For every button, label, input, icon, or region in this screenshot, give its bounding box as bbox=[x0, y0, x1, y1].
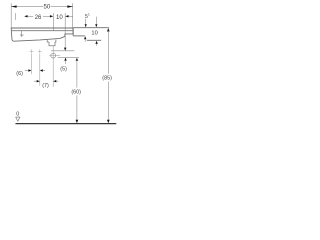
waste connection circle bbox=[51, 53, 56, 58]
svg-text:26: 26 bbox=[35, 14, 42, 21]
svg-text:(85): (85) bbox=[102, 76, 112, 82]
fixing line 1 bbox=[31, 54, 33, 75]
dim (6) arrow left bbox=[25, 70, 29, 72]
dim 26 arrow right bbox=[50, 15, 53, 17]
svg-text:10: 10 bbox=[56, 14, 63, 21]
fixing cross 1 bbox=[30, 49, 34, 53]
dim 50 extension line left bbox=[10, 3, 12, 28]
supply level line bbox=[51, 50, 74, 52]
dim (85) up arrow bbox=[107, 28, 110, 32]
dim 10 side arrowhead bbox=[95, 24, 97, 27]
svg-text:(7): (7) bbox=[42, 83, 49, 89]
rail bar line bbox=[87, 39, 101, 41]
fixing line 2 bbox=[39, 54, 41, 86]
svg-text:(6): (6) bbox=[16, 71, 23, 77]
dim 50 line bbox=[11, 6, 43, 8]
dim 50 extension line right bbox=[72, 3, 74, 28]
floor line bbox=[16, 123, 117, 125]
dim 50 arrow left bbox=[11, 5, 16, 7]
dim (60) down arrow bbox=[76, 120, 79, 124]
extension / dim line to waste level bbox=[64, 13, 66, 48]
side view front edge bbox=[72, 28, 74, 36]
svg-text:(5): (5) bbox=[60, 67, 67, 73]
svg-text:1: 1 bbox=[88, 13, 90, 17]
waste level line bbox=[58, 56, 79, 58]
dim (7) arrow left bbox=[34, 80, 37, 82]
drain flange bbox=[47, 40, 56, 42]
dim (85) down arrow bbox=[107, 120, 110, 124]
svg-text:50: 50 bbox=[44, 4, 51, 11]
dim (60) line upper bbox=[76, 61, 78, 88]
dim (85) line upper bbox=[107, 31, 109, 74]
up arrow at rail bbox=[95, 41, 97, 44]
dim (60) up arrow bbox=[76, 58, 78, 61]
up arrow at underside bbox=[84, 36, 86, 39]
dim 10 side leader line bbox=[95, 17, 97, 25]
drain centerline bbox=[52, 46, 54, 87]
svg-text:(60): (60) bbox=[71, 90, 81, 96]
leader 5 line bbox=[85, 19, 87, 25]
dim (6) arrow right bbox=[40, 69, 43, 71]
tap hole mark bbox=[20, 31, 24, 37]
tap hole extension line bbox=[53, 13, 55, 31]
drain stub bbox=[49, 42, 55, 46]
fixing cross 2 bbox=[38, 49, 42, 53]
basin front view outline bbox=[11, 28, 73, 41]
svg-text:10: 10 bbox=[91, 31, 97, 37]
waste circle crosshair bbox=[49, 55, 60, 57]
dim (85) line lower bbox=[107, 82, 109, 121]
dim (60) line lower bbox=[76, 95, 78, 120]
dim 26 line bbox=[43, 15, 51, 17]
dim 5 down arrowhead bbox=[64, 48, 66, 51]
basin rim line bbox=[12, 30, 73, 32]
dim 10 arrow bbox=[65, 15, 68, 17]
dim 5 up arrow bbox=[64, 58, 66, 61]
side view underside bbox=[73, 35, 85, 37]
leader 5 arrowhead bbox=[85, 24, 87, 27]
dim 26 arrow left bbox=[24, 15, 27, 17]
dim 50 arrow right bbox=[67, 5, 72, 7]
side view top line bbox=[73, 27, 109, 29]
dim (7) arrow right bbox=[53, 80, 56, 82]
dim 26 stub extension line bbox=[15, 13, 17, 20]
level datum triangle bbox=[16, 117, 20, 121]
